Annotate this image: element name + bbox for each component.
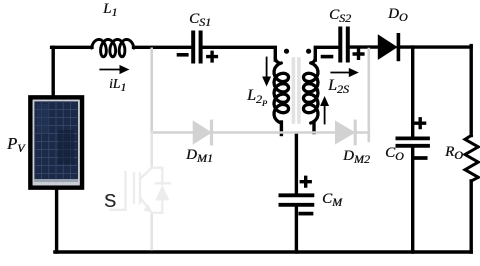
arrow iL1 [100,66,128,74]
label CS1 [189,12,211,27]
label CO [385,146,404,161]
wire: transformer secondary bottom lead to grey rail [312,122,315,133]
capacitor CS2 minus sign [323,55,332,59]
diode DM2 (greyed) [336,121,356,144]
wire: top rail from L1 to capacitor CS1 [134,46,192,49]
capacitor CS1 plates [193,33,200,62]
switch S: IGBT emitter arrowhead (greyed) [143,204,152,212]
wire: PV bottom lead down to bottom bus [55,189,58,252]
inductor L1 [92,39,135,56]
capacitor CO plus sign [416,119,425,128]
wire: top rail from CS1 to transformer primary corner, then down to winding [202,47,275,60]
transformer dot secondary [306,49,311,54]
label S [104,192,116,210]
label DM2 [343,149,370,164]
PV module cell field [34,101,78,181]
wire: transformer primary bottom lead to grey rail [280,122,283,135]
arrow L2P current (down) [263,58,270,86]
PV module frame [30,97,82,187]
capacitor CO minus sign [416,156,426,160]
wire: CO branch vertical lower (CO to bottom bus) [411,148,414,253]
wire: right edge upper segment (corner down to RO) [470,46,473,136]
label DO [388,7,408,22]
wire: bottom bus [55,250,471,253]
diode DM1 (greyed) [193,121,211,144]
label DM1 [186,148,213,163]
grey wire: switch collector/emitter leads [150,133,153,250]
grey switch branch: vertical wire through S [152,49,369,141]
switch S: IGBT with antiparallel diode (greyed) [111,168,170,213]
label PV [7,136,24,153]
label L2S [328,78,349,94]
switch S: body diode triangle (greyed) [155,185,169,201]
wire: top-left vertical from PV top to top rail [52,47,55,95]
capacitor CM plates [280,195,312,205]
grey wire: DM2 cathode riser to top rail [367,49,370,141]
transformer primary winding L2P [274,57,289,123]
arrow CS2 current [331,69,357,77]
wire: top rail from DO cathode to top-right corner [398,45,471,48]
wire: right edge lower segment (RO to bottom bus) [470,181,473,252]
arrow L2S current (up) [321,97,328,123]
capacitor CO plates [397,138,428,145]
PV module silver inner border [33,100,80,185]
transformer core bars [293,59,299,122]
wire: transformer secondary top lead up and right to CS2 [315,47,338,60]
label L2P [247,88,267,104]
capacitor CS2 plus sign [354,50,363,59]
capacitor CS1 minus sign [179,53,187,57]
capacitor CS2 plates [340,29,348,61]
capacitor CM minus sign [300,212,311,216]
grey rail: multiplier diode rail DM1/DM2 [152,131,369,134]
label CS2 [329,8,351,23]
capacitor CS1 plus sign [208,52,217,61]
wire: CM branch vertical lower (CM to bottom bus) [295,207,298,253]
label L1 [103,2,117,17]
diode DO [378,35,398,60]
transformer secondary winding L2S [303,57,318,123]
label CM [322,192,342,207]
label RO [445,145,463,160]
wire: CO branch vertical upper (top rail down to CO) [411,47,414,137]
capacitor CM plus sign [301,177,310,186]
wire: CM branch vertical upper (rail to CM) [295,134,298,194]
wire: top rail from CS2 to diode DO [350,45,379,48]
transformer dot primary [284,49,289,54]
label iL1 [109,77,126,91]
resistor RO zigzag [465,136,478,182]
wire: top rail from left corner to inductor L1 [52,46,92,49]
